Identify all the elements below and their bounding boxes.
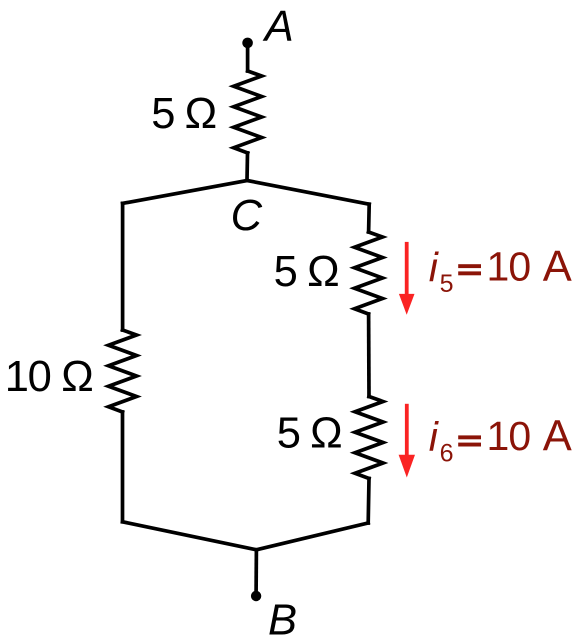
svg-text:5 Ω: 5 Ω	[151, 90, 217, 138]
svg-text:0: 0	[508, 244, 531, 290]
svg-text:5: 5	[440, 270, 454, 298]
wire node B junction to terminal B	[254, 550, 258, 591]
wire right branch to node B (diagonal)	[257, 523, 369, 550]
wire between R5 and R6	[367, 314, 371, 397]
current arrow i6	[399, 404, 415, 478]
svg-text:A: A	[543, 243, 572, 291]
wire node C to left branch (diagonal)	[123, 181, 247, 204]
svg-text:1: 1	[487, 413, 510, 459]
wire left branch upper vertical	[121, 203, 125, 330]
svg-text:10 Ω: 10 Ω	[5, 353, 94, 401]
svg-text:5 Ω: 5 Ω	[274, 248, 340, 296]
resistor R5 5 ohm (right branch upper)	[355, 232, 383, 314]
svg-text:0: 0	[508, 413, 531, 459]
resistor R2 10 ohm (left branch)	[109, 330, 137, 412]
svg-text:6: 6	[440, 439, 454, 467]
svg-text:C: C	[231, 192, 263, 240]
current label i6 = 10 A	[429, 413, 572, 468]
wire left branch lower vertical	[121, 412, 125, 522]
svg-text:B: B	[268, 597, 297, 639]
wire A to resistor R1	[246, 43, 250, 71]
wire right branch upper vertical	[367, 204, 371, 232]
wire R1 to node C	[245, 153, 249, 181]
node B terminal dot	[251, 591, 261, 601]
wire right branch lower vertical	[366, 479, 370, 524]
svg-text:5 Ω: 5 Ω	[277, 410, 343, 458]
current arrow i5	[399, 242, 415, 315]
resistor R6 5 ohm (right branch lower)	[355, 397, 383, 479]
wire node C to right branch (diagonal)	[247, 181, 369, 205]
svg-text:1: 1	[487, 244, 510, 290]
current label i5 = 10 A	[429, 243, 572, 298]
node A terminal dot	[242, 38, 253, 49]
svg-text:A: A	[543, 413, 572, 461]
resistor R1 5 ohm (top)	[234, 71, 262, 153]
wire left branch to node B (diagonal)	[123, 522, 257, 550]
svg-text:A: A	[262, 3, 294, 51]
